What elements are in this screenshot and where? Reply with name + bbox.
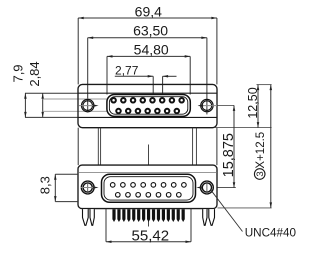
svg-text:8,3: 8,3	[37, 176, 52, 194]
svg-text:55,42: 55,42	[132, 228, 170, 245]
svg-text:54,80: 54,80	[134, 42, 169, 58]
svg-text:12,50: 12,50	[246, 87, 260, 118]
svg-text:2,84: 2,84	[27, 61, 42, 86]
svg-text:UNC4#40: UNC4#40	[245, 227, 297, 240]
svg-text:7,9: 7,9	[11, 64, 26, 82]
svg-text:X+12.5: X+12.5	[255, 132, 267, 169]
svg-text:2,77: 2,77	[115, 64, 139, 78]
svg-text:15,875: 15,875	[221, 133, 237, 177]
svg-text:3: 3	[255, 171, 266, 176]
svg-text:69,4: 69,4	[135, 4, 162, 20]
svg-text:63,50: 63,50	[133, 22, 168, 38]
